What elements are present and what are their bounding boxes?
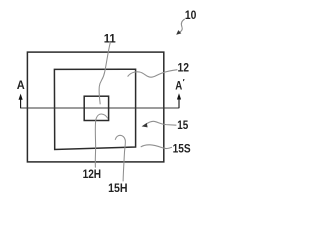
middle rectangle (element 12 outline): [54, 69, 135, 149]
svg-text:10: 10: [185, 8, 197, 22]
svg-text:A: A: [17, 78, 25, 92]
leader for 11: [99, 43, 110, 105]
svg-text:15: 15: [177, 118, 188, 132]
svg-text:A: A: [175, 79, 182, 93]
svg-text:′: ′: [183, 77, 185, 87]
section line A-A': [20, 107, 179, 109]
svg-text:15S: 15S: [173, 141, 191, 155]
arrow A (left section arrow): [19, 94, 23, 108]
leader for 15H (hook at middle rect bottom): [115, 135, 125, 181]
leader for 12: [128, 70, 178, 78]
leader for 12H (hooks into square 11 bottom): [95, 114, 107, 168]
svg-text:12: 12: [178, 61, 190, 75]
arrow A' (right section arrow): [177, 93, 181, 108]
arrow leader for 15: [142, 121, 177, 127]
outer rectangle (element 15 outline): [27, 52, 163, 162]
leader for 15S: [141, 145, 172, 149]
arrow leader for 10: [176, 19, 185, 35]
small square (element 11): [84, 96, 108, 120]
svg-text:12H: 12H: [83, 167, 102, 181]
svg-text:15H: 15H: [108, 181, 127, 195]
